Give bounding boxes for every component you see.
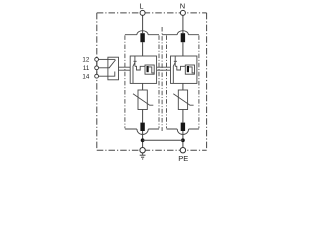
svg-text:L: L (139, 1, 143, 10)
svg-text:PE: PE (178, 154, 188, 163)
svg-text:N: N (180, 1, 185, 10)
svg-text:12: 12 (82, 57, 89, 64)
svg-text:14: 14 (82, 73, 89, 80)
svg-text:11: 11 (83, 65, 90, 72)
